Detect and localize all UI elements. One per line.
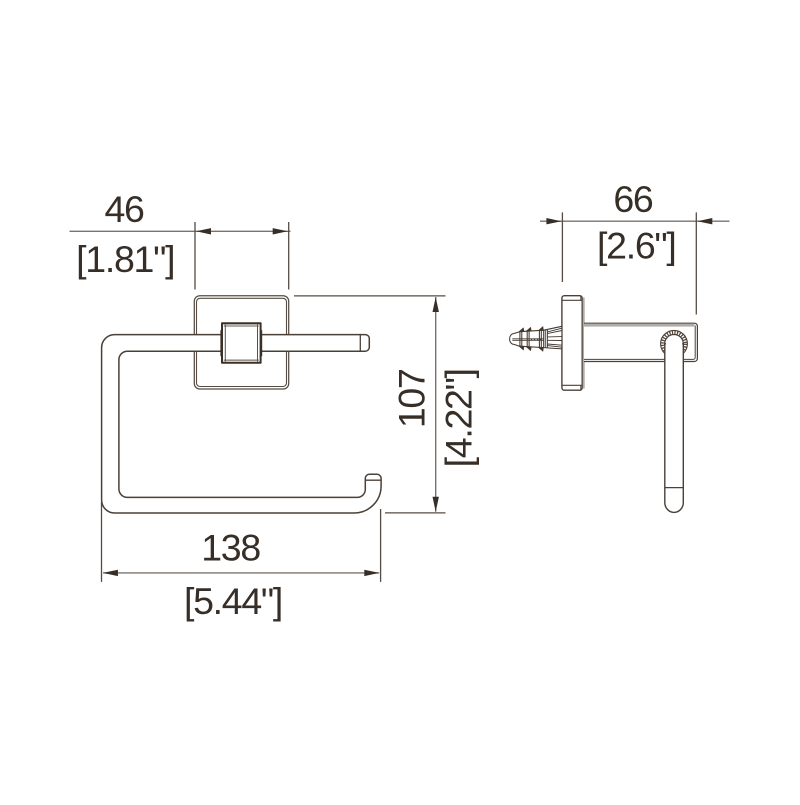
screw thread top spikes [519,328,524,332]
wall plate (side view) body [562,296,582,391]
dimension 107: top extension line [294,295,446,297]
dimension 138: right extension line [380,509,382,582]
dimension 138: left arrowhead [103,570,118,576]
dimension 138: right arrowhead [364,570,379,576]
hanger arm (side view) outer outline [584,323,697,361]
screw ferrule cone [544,326,562,349]
towel ring arm end-cap joint line [359,335,361,352]
dimension 138: left extension line [101,502,103,582]
dimension 107: top arrowhead [433,297,439,312]
pivot inner circle / rod dome [665,335,684,354]
dimension 66: dimension line [540,220,730,222]
svg-text:[5.44"]: [5.44"] [184,580,282,622]
dimension 46: dimension line [70,230,291,232]
dimension 66: right extension line [695,212,697,314]
svg-text:138: 138 [201,527,260,569]
svg-text:[2.6"]: [2.6"] [597,224,675,266]
collar top shading band [224,325,259,327]
collar side tabs (front view) [220,330,262,356]
ferrule slant lines [547,328,562,332]
screw thread root bars [519,332,521,346]
wall plate (side view) top chamfer line [580,296,582,300]
ferrule collar lines [545,330,547,348]
hanging rod top edge erase (keep dome visible) [666,343,682,345]
hanger arm (side view) inner bottom and right line [584,326,695,360]
svg-text:[1.81"]: [1.81"] [76,238,174,280]
dimension 138: dimension line [103,572,379,574]
dimension 46: left extension line [194,222,196,290]
wall plate (side view) bottom cap line [562,384,582,386]
dimension 46: right arrowhead [273,228,288,234]
wall plate (side view) right shading band [583,298,585,389]
mounting screw (side view) [510,326,562,351]
dimension 107: bottom extension line [385,512,446,514]
collar inner bottom edge line [224,359,259,361]
hanging rod (side view) [665,344,684,513]
towel ring hook cap joint line [365,479,381,481]
screw shank outline with blunt tip [510,330,544,347]
collar body (front view) [222,323,261,362]
pivot knurled ring outer circle (side view) [661,330,688,357]
dimension 107: dimension line [435,297,437,512]
hanging rod joint line [665,487,684,489]
towel ring body (front view, white-filled C-shaped tube) [102,335,382,513]
screw thread bottom spikes [519,346,524,350]
collar inner left edge line [224,324,226,361]
wall plate (side view) bottom chamfer line [580,385,582,390]
svg-text:[4.22"]: [4.22"] [438,369,480,467]
svg-text:107: 107 [391,369,433,428]
wall plate inner outline (front view) [197,298,287,386]
dimension 66: right arrowhead (outside, points left) [697,218,712,224]
pivot knurl texture band [663,332,686,355]
svg-text:46: 46 [104,188,144,230]
collar inner right edge line [257,324,259,361]
dimension 46: left arrowhead [196,228,211,234]
dimension 46: right extension line [288,222,290,290]
wall plate outer outline (front view) [194,296,288,389]
dimension 66: left arrowhead (outside, points right) [546,218,561,224]
dimension 66: left extension line [561,212,563,282]
dimension 107: bottom arrowhead [433,497,439,512]
svg-text:66: 66 [613,178,653,220]
hanger arm (side view) top shading band [584,324,694,327]
screw centreline dashes [512,338,545,340]
wall plate (side view) top cap line [562,299,582,301]
